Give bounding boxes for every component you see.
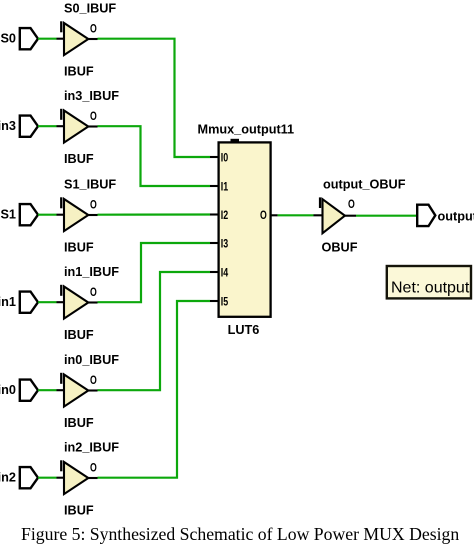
svg-text:in0_IBUF: in0_IBUF xyxy=(64,353,119,367)
wire in2 to IBUF input xyxy=(38,477,57,479)
svg-text:IBUF: IBUF xyxy=(64,65,94,79)
svg-text:I5: I5 xyxy=(221,294,229,308)
wire in3 to IBUF input xyxy=(38,125,57,127)
pin label I of U1 xyxy=(60,21,62,32)
svg-text:OBUF: OBUF xyxy=(322,240,358,254)
buffer IBUF U6 (in2_IBUF) xyxy=(64,462,88,494)
input port symbol in1 xyxy=(20,292,38,313)
wire net in3_IBUF to LUT pin I1 xyxy=(98,126,211,186)
wire in1 to IBUF input xyxy=(38,301,57,303)
IBUF U4 output pin stub xyxy=(88,301,97,303)
wire net in2_IBUF to LUT pin I5 xyxy=(98,301,211,478)
svg-text:IBUF: IBUF xyxy=(64,241,94,255)
svg-text:Net: output: Net: output xyxy=(391,280,470,297)
pin label I of U3 xyxy=(60,197,62,208)
wire S1 to IBUF input xyxy=(38,214,57,216)
svg-text:I4: I4 xyxy=(221,265,229,279)
LUT pin stub I1 xyxy=(210,185,219,187)
svg-text:output_OBUF: output_OBUF xyxy=(323,177,406,191)
svg-text:IBUF: IBUF xyxy=(64,504,94,518)
IBUF U3 output pin stub xyxy=(88,214,97,216)
IBUF U1 output pin stub xyxy=(88,38,97,40)
svg-text:in3: in3 xyxy=(0,119,16,133)
svg-text:S1: S1 xyxy=(0,208,16,222)
buffer OBUF U7 (output_OBUF) xyxy=(323,199,345,233)
wire net in1_IBUF to LUT pin I3 xyxy=(98,243,211,302)
IBUF U1 input pin stub xyxy=(57,38,65,40)
OBUF input pin stub xyxy=(314,214,323,216)
input port symbol S0 xyxy=(20,28,38,49)
wire net S0_IBUF to LUT pin I0 xyxy=(98,39,211,157)
svg-text:O: O xyxy=(90,285,97,299)
figure caption xyxy=(21,524,459,545)
svg-text:O: O xyxy=(260,208,267,222)
IBUF U6 input pin stub xyxy=(57,477,65,479)
svg-text:IBUF: IBUF xyxy=(64,328,94,342)
svg-text:in0: in0 xyxy=(0,383,16,397)
svg-text:O: O xyxy=(348,197,355,211)
LUT pin stub I5 xyxy=(210,300,219,302)
svg-text:in3_IBUF: in3_IBUF xyxy=(64,89,119,103)
wire in0 to IBUF input xyxy=(38,389,57,391)
pin label I of U6 xyxy=(60,460,62,471)
wire S0 to IBUF input xyxy=(38,38,57,40)
IBUF U2 output pin stub xyxy=(88,125,97,127)
svg-text:Mmux_output11: Mmux_output11 xyxy=(198,122,295,136)
svg-text:O: O xyxy=(90,373,97,387)
svg-text:O: O xyxy=(90,22,97,36)
LUT pin stub I4 xyxy=(210,271,219,273)
wire net output (OBUF to output port) xyxy=(356,215,417,217)
svg-text:S0_IBUF: S0_IBUF xyxy=(64,2,116,16)
svg-text:I3: I3 xyxy=(221,236,229,250)
svg-text:in2_IBUF: in2_IBUF xyxy=(64,441,119,455)
svg-text:IBUF: IBUF xyxy=(64,416,94,430)
LUT pin stub I3 xyxy=(210,242,219,244)
svg-text:O: O xyxy=(90,198,97,212)
pin label I of U5 xyxy=(60,373,62,384)
buffer IBUF U4 (in1_IBUF) xyxy=(64,287,88,319)
svg-text:S0: S0 xyxy=(0,32,16,46)
buffer IBUF U3 (S1_IBUF) xyxy=(64,199,88,231)
svg-text:in1: in1 xyxy=(0,295,16,309)
svg-text:O: O xyxy=(90,109,97,123)
output port symbol xyxy=(417,205,435,226)
net annotation box Net: output xyxy=(387,266,471,298)
LUT output pin stub O xyxy=(271,214,278,216)
svg-text:I2: I2 xyxy=(221,208,229,222)
svg-text:S1_IBUF: S1_IBUF xyxy=(64,178,116,192)
IBUF U5 output pin stub xyxy=(88,389,97,391)
buffer IBUF U1 (S0_IBUF) xyxy=(64,23,88,55)
LUT pin stub I0 xyxy=(210,156,219,158)
buffer IBUF U5 (in0_IBUF) xyxy=(64,375,88,407)
svg-text:IBUF: IBUF xyxy=(64,152,94,166)
IBUF U3 input pin stub xyxy=(57,214,65,216)
svg-text:output: output xyxy=(438,210,474,224)
LUT6 block body (Mmux_output11) xyxy=(219,142,271,316)
svg-text:I0: I0 xyxy=(221,150,229,164)
pin label I of U2 xyxy=(60,109,62,120)
IBUF U4 input pin stub xyxy=(57,301,65,303)
OBUF output pin stub xyxy=(345,215,356,217)
wire net in0_IBUF to LUT pin I4 xyxy=(98,272,211,390)
pin label I of U4 xyxy=(60,285,62,296)
pin label I of U7 xyxy=(319,197,321,208)
wire net S1_IBUF to LUT pin I2 xyxy=(98,213,211,215)
input port symbol in2 xyxy=(20,467,38,488)
input port symbol in0 xyxy=(20,380,38,401)
svg-text:O: O xyxy=(90,461,97,475)
IBUF U5 input pin stub xyxy=(57,389,65,391)
buffer IBUF U2 (in3_IBUF) xyxy=(64,111,88,143)
svg-text:in2: in2 xyxy=(0,471,16,485)
IBUF U2 input pin stub xyxy=(57,125,65,127)
label underscore artifact on top edge xyxy=(231,139,240,143)
svg-text:I1: I1 xyxy=(221,179,229,193)
IBUF U6 output pin stub xyxy=(88,477,97,479)
LUT pin stub I2 xyxy=(210,213,219,215)
svg-text:LUT6: LUT6 xyxy=(228,323,260,337)
svg-text:in1_IBUF: in1_IBUF xyxy=(64,265,119,279)
wire net output_OBUF (LUT O to OBUF input) xyxy=(278,214,314,216)
input port symbol S1 xyxy=(20,204,38,225)
input port symbol in3 xyxy=(20,116,38,137)
